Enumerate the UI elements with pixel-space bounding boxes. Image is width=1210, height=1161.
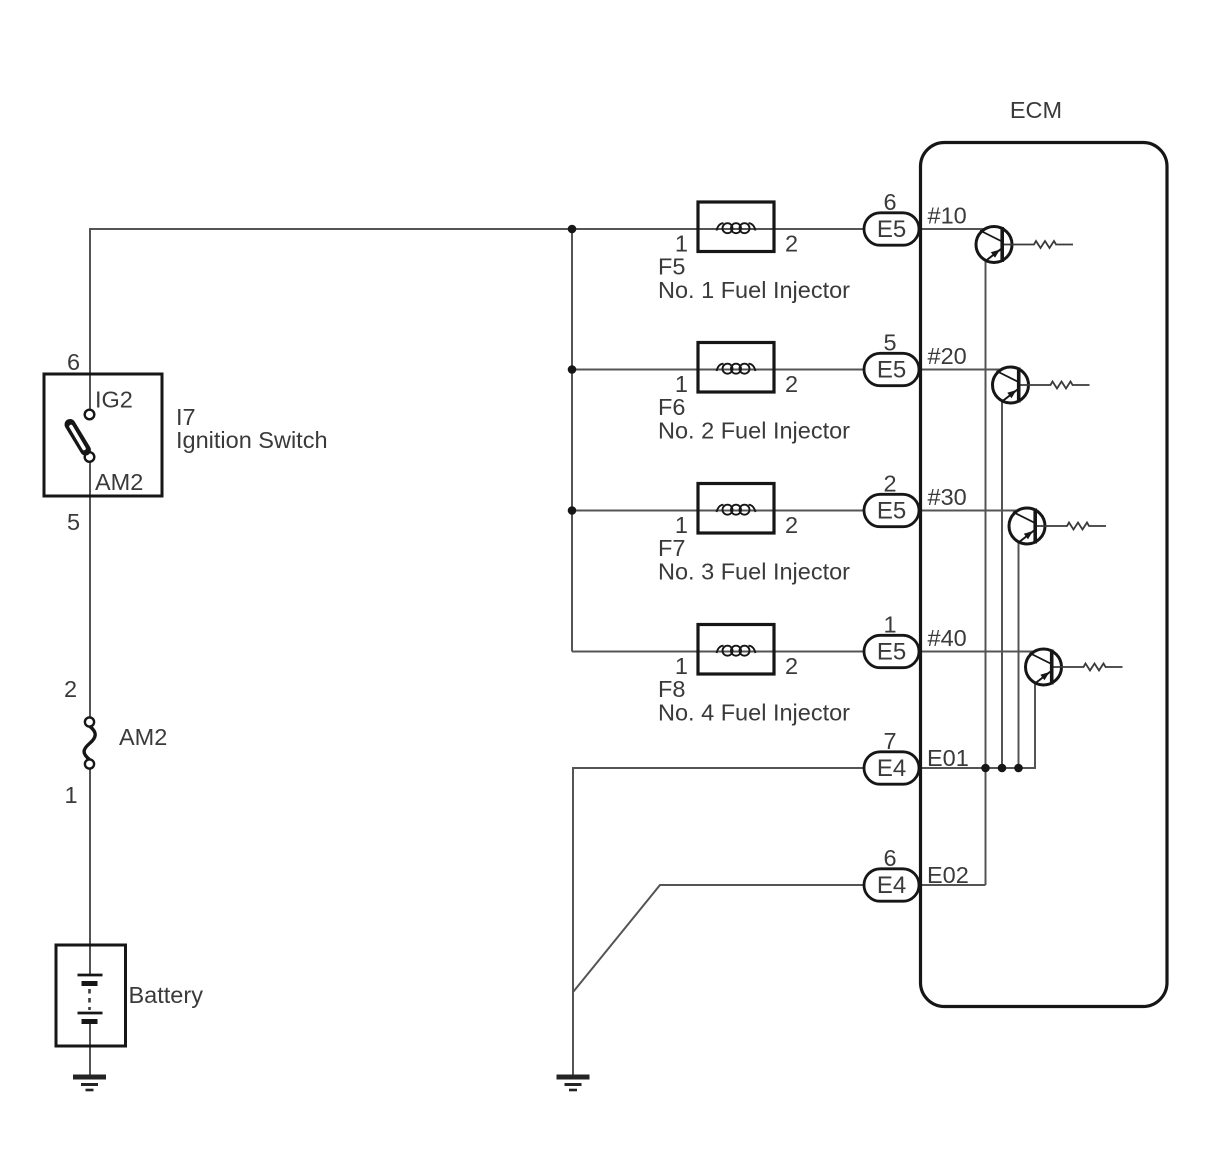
wire: fuse AM2 bottom terminal down to battery + plate	[89, 769, 91, 976]
fuse AM2 top terminal circle	[85, 717, 94, 726]
wire: battery - plate down to ground	[89, 1022, 91, 1078]
resistor R1 (collector load squiggle)	[1004, 241, 1073, 248]
svg-text:2: 2	[785, 371, 798, 397]
svg-text:7: 7	[883, 728, 896, 754]
svg-text:5: 5	[67, 509, 80, 535]
wire: transistor Q3 emitter drop to E01/E02 line	[1018, 542, 1020, 769]
svg-text:#10: #10	[928, 203, 967, 229]
junction dot: E01/Q2 emitter	[998, 764, 1007, 773]
svg-text:AM2: AM2	[95, 469, 143, 495]
battery middle dashed cell link	[88, 989, 91, 1010]
svg-text:E01: E01	[927, 745, 969, 771]
svg-text:No. 4 Fuel Injector: No. 4 Fuel Injector	[658, 700, 850, 726]
svg-text:6: 6	[67, 349, 80, 375]
svg-text:1: 1	[883, 612, 896, 638]
svg-text:E02: E02	[927, 862, 969, 888]
svg-text:ECM: ECM	[1010, 97, 1062, 123]
svg-text:2: 2	[785, 512, 798, 538]
svg-text:1: 1	[64, 782, 77, 808]
svg-text:E4: E4	[877, 755, 906, 782]
ground symbol (ECM E01/E02 chassis ground)	[557, 1077, 590, 1090]
svg-text:E5: E5	[877, 216, 906, 243]
resistor R4 (collector load squiggle)	[1054, 664, 1123, 671]
svg-text:F6: F6	[658, 394, 685, 420]
connector E5 oval, row 3	[864, 494, 919, 526]
connector E4 oval (E02)	[864, 869, 919, 901]
ignition switch lever	[70, 425, 86, 451]
wire: ignition switch AM2 contact down to fuse AM2 top terminal	[89, 462, 91, 718]
svg-text:E5: E5	[877, 497, 906, 524]
svg-text:#20: #20	[928, 343, 967, 369]
ignition switch contact IG2 (top circle)	[85, 410, 95, 420]
svg-text:No. 2 Fuel Injector: No. 2 Fuel Injector	[658, 418, 850, 444]
injector F5 box	[698, 202, 774, 252]
svg-text:2: 2	[883, 471, 896, 497]
svg-text:6: 6	[883, 189, 896, 215]
battery box	[56, 945, 126, 1046]
svg-text:E5: E5	[877, 638, 906, 665]
svg-text:E4: E4	[877, 872, 906, 899]
svg-text:IG2: IG2	[95, 387, 133, 413]
resistor R3 (collector load squiggle)	[1037, 523, 1106, 530]
svg-text:Ignition Switch: Ignition Switch	[176, 427, 328, 453]
transistor Q1 (injector driver inside ECM)	[976, 227, 1073, 263]
fuse AM2 bottom terminal circle	[85, 759, 94, 768]
battery plate: upper long (+)	[78, 974, 103, 977]
ECM box	[921, 143, 1168, 1007]
injector F7 coil	[717, 505, 756, 515]
transistor Q2 (injector driver inside ECM)	[993, 367, 1090, 403]
battery plate: lower short thick (-)	[82, 1019, 98, 1024]
svg-text:AM2: AM2	[119, 724, 167, 750]
junction dot: E01/Q3 emitter	[1014, 764, 1023, 773]
connector E5 oval, row 4	[864, 635, 919, 667]
injector F8 box	[698, 625, 774, 675]
ignition switch I7 box	[44, 374, 162, 496]
svg-text:#40: #40	[928, 625, 967, 651]
svg-text:2: 2	[785, 231, 798, 257]
junction dot: bus/row1	[568, 225, 577, 234]
svg-text:E5: E5	[877, 356, 906, 383]
svg-text:2: 2	[785, 653, 798, 679]
resistor R2 (collector load squiggle)	[1021, 382, 1090, 389]
battery plate: lower long (+)	[78, 1012, 103, 1015]
svg-text:F8: F8	[658, 676, 685, 702]
wire: ECM E01 ground line from Q4 emitter corner through E4 connector to ground riser and chassis ground	[573, 683, 1035, 1077]
svg-text:F5: F5	[658, 254, 685, 280]
svg-text:#30: #30	[928, 484, 967, 510]
connector E5 oval, row 1	[864, 213, 919, 245]
wire: vertical distribution bus feeding injectors F5-F8	[571, 229, 573, 652]
injector F8 coil	[717, 646, 756, 656]
wire: battery positive feed, vertical from horizontal bus down to ignition switch IG2 contact	[90, 229, 984, 410]
svg-text:F7: F7	[658, 535, 685, 561]
injector F7 box	[698, 484, 774, 534]
svg-text:5: 5	[883, 330, 896, 356]
ground symbol (battery negative)	[73, 1077, 106, 1090]
svg-text:No. 3 Fuel Injector: No. 3 Fuel Injector	[658, 559, 850, 585]
connector E5 oval, row 2	[864, 353, 919, 385]
junction dot: E01/Q1 emitter	[981, 764, 990, 773]
ignition switch contact AM2 (bottom circle)	[85, 452, 95, 462]
injector F6 box	[698, 343, 774, 393]
wire: branch to injector row 2 (F6) through to ECM	[572, 369, 1001, 371]
svg-text:2: 2	[64, 676, 77, 702]
connector E4 oval (E01)	[864, 752, 919, 784]
injector F6 coil	[717, 364, 756, 374]
junction dot: bus/row3	[568, 506, 577, 515]
wire: transistor Q1 emitter drop to E01/E02 line	[985, 260, 987, 885]
wire: branch to injector row 3 (F7) through to ECM	[572, 510, 1017, 512]
wire: transistor Q2 emitter drop to E01/E02 line	[1001, 401, 1003, 769]
fuse AM2 element (S-curve)	[84, 727, 95, 760]
wire: E02 line from Q1 emitter drop through E4 connector, diagonal down to ground riser	[574, 885, 986, 992]
battery plate: upper short thick (-)	[82, 981, 98, 986]
svg-text:No. 1 Fuel Injector: No. 1 Fuel Injector	[658, 277, 850, 303]
wire: branch to injector row 4 (F8) through to ECM	[572, 651, 1034, 653]
injector F5 coil	[717, 223, 756, 233]
svg-text:6: 6	[883, 845, 896, 871]
transistor Q3 (injector driver inside ECM)	[1009, 508, 1106, 544]
junction dot: bus/row2	[568, 365, 577, 374]
svg-text:Battery: Battery	[129, 982, 204, 1008]
transistor Q4 (injector driver inside ECM)	[1026, 649, 1123, 685]
